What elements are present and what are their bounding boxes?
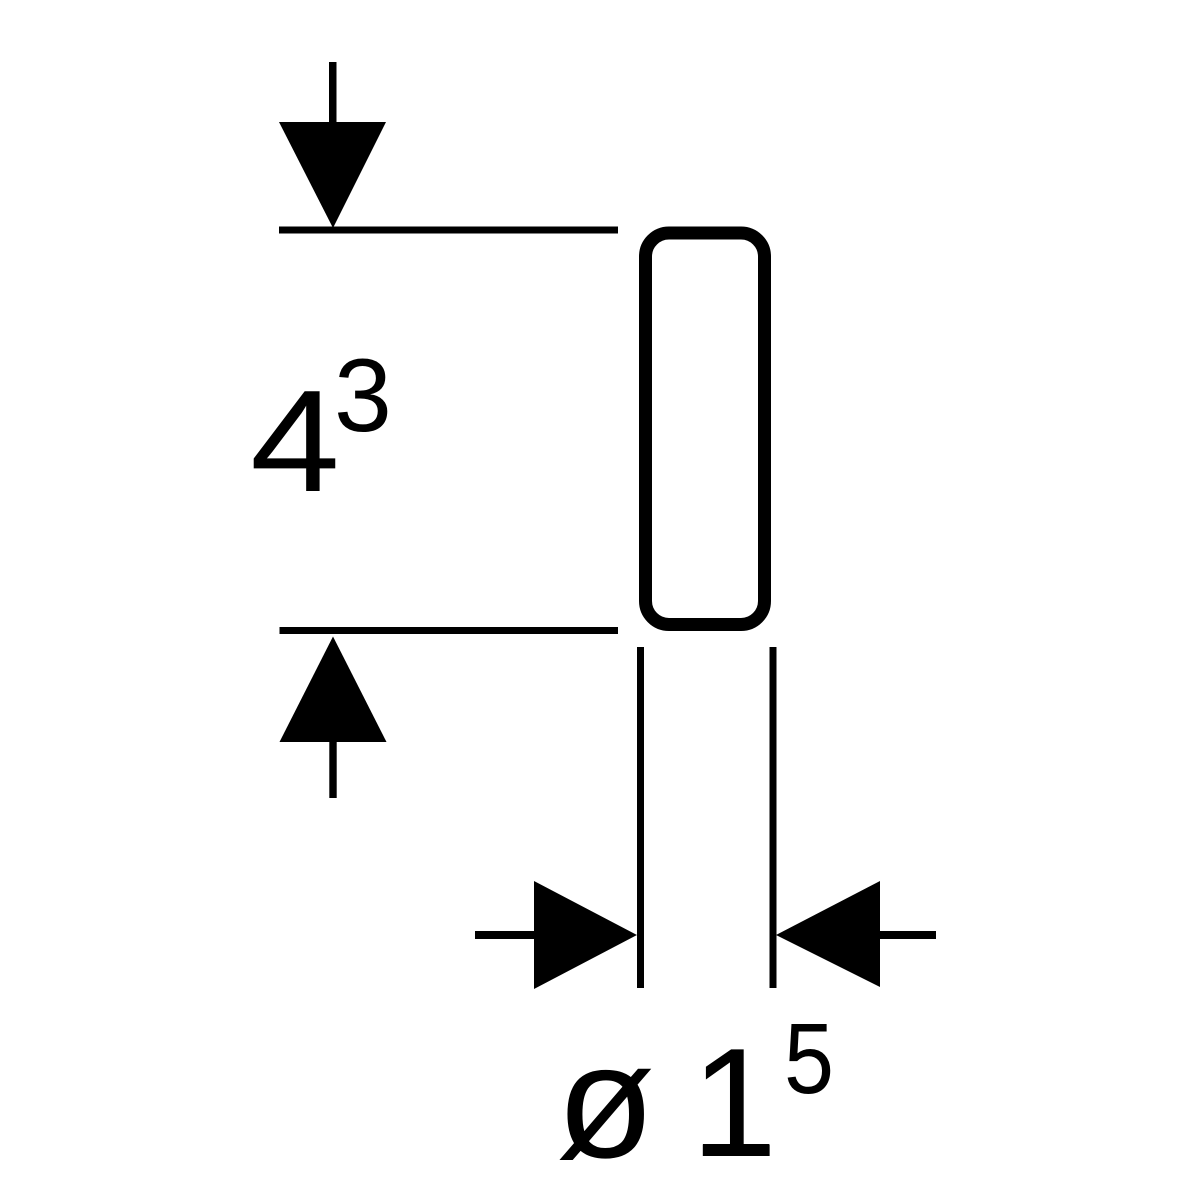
svg-text:4: 4 <box>250 360 340 522</box>
extension line right <box>770 647 777 988</box>
svg-text:5: 5 <box>784 1003 834 1115</box>
extension line left <box>637 647 644 988</box>
right arrowhead (left-pointing triangle) <box>776 881 880 987</box>
left arrow tail (horizontal) <box>475 931 537 939</box>
top arrowhead (down triangle) <box>279 122 386 228</box>
bottom arrowhead (up triangle) <box>280 637 387 743</box>
top arrow tail (vertical) <box>329 62 337 126</box>
right arrow tail (horizontal) <box>878 931 936 939</box>
diameter digit 1 foot bar <box>703 1144 769 1156</box>
bottom dimension line (level with bottom of slot) <box>280 627 619 634</box>
top dimension line (level with top of slot) <box>279 227 618 234</box>
svg-text:ø: ø <box>556 1011 655 1192</box>
bottom arrow tail (vertical) <box>329 742 336 798</box>
svg-text:3: 3 <box>334 338 392 454</box>
svg-text:1: 1 <box>691 1016 777 1189</box>
slot outline (rounded rectangle) <box>646 233 765 625</box>
left arrowhead (right-pointing triangle) <box>534 881 637 989</box>
